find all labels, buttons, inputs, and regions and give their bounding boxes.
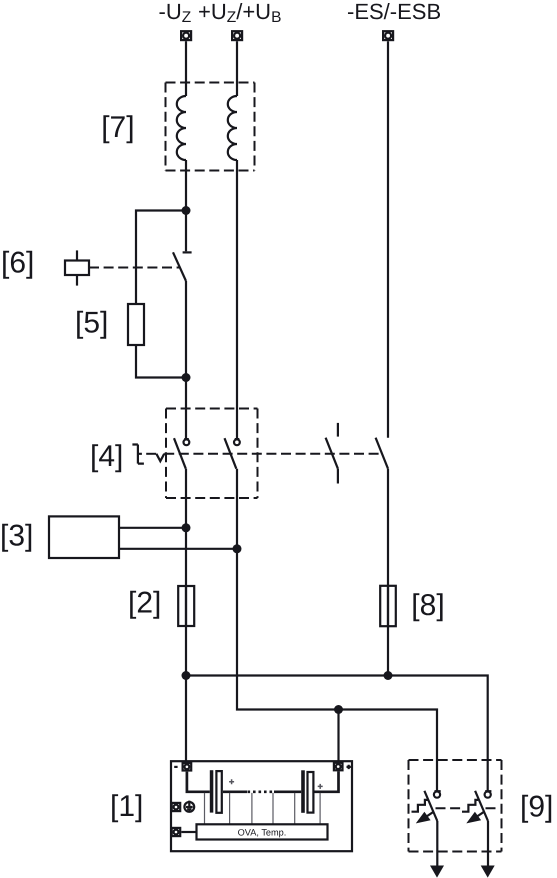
monitor board OVA Temp [197, 824, 328, 839]
enclosure [7] dashed box [166, 83, 255, 171]
breaker Q1 contact circle [434, 791, 441, 798]
breaker Q1 blade [424, 791, 437, 821]
relay coil [6] [65, 250, 89, 285]
wire bus1 to breaker right [186, 676, 488, 792]
label [9] [520, 790, 553, 823]
svg-text:[1]: [1] [110, 790, 143, 823]
wire node through fuse [2] [185, 528, 187, 676]
node -ES joins bus1 [384, 671, 393, 680]
arrow Q2 output [481, 866, 495, 878]
switch S6 blade [173, 252, 186, 281]
svg-text:[8]: [8] [411, 589, 444, 622]
switch K4 blade on -ES line [376, 438, 388, 469]
wire [3] to +UZ node [119, 548, 237, 550]
label [7] [101, 111, 134, 144]
fuse [2] [178, 586, 194, 626]
breaker Q2 blade [475, 791, 488, 821]
label [1] [110, 790, 143, 823]
actuator symbol [4] [132, 445, 144, 464]
terminal label -UZ [159, 0, 192, 26]
svg-text:[3]: [3] [0, 519, 33, 552]
wire node down to [1] + terminal [337, 710, 339, 763]
switch K1 blade [174, 438, 186, 469]
wire K2 to node [236, 469, 238, 549]
terminal -ES/-ESB [383, 31, 393, 40]
node on -UZ line (bottom of R branch) [182, 373, 191, 382]
switch K1 in [4] contact circle [184, 439, 190, 445]
label [5] [75, 306, 108, 339]
wire L1 to node [185, 160, 187, 211]
protective earth symbol [184, 801, 194, 812]
svg-text:OVA, Temp.: OVA, Temp. [238, 828, 287, 838]
dotted continuation (more capacitors) [248, 790, 274, 793]
node -UZ line at [3] [182, 523, 191, 532]
wire C2 to [1] plus terminal [314, 771, 338, 791]
terminal [1] minus [174, 763, 191, 771]
inductor L1 [177, 96, 186, 160]
wire -UZ down to inductor [185, 41, 187, 96]
terminal [1] plus [334, 763, 351, 771]
wire Q1 output [436, 821, 438, 867]
terminal +UZ/+UB [232, 31, 242, 40]
svg-text:-ES/-ESB: -ES/-ESB [347, 0, 441, 24]
breaker Q1 release arrow [416, 812, 434, 824]
label [6] [1, 246, 34, 279]
wire node to resistor branch [136, 211, 186, 305]
wire [1] minus terminal to capacitor row [187, 772, 210, 792]
svg-text:+UZ/+UB: +UZ/+UB [198, 0, 281, 26]
wire -UZ node down to [1] - terminal [185, 676, 187, 763]
component [1] capacitor unit box [171, 761, 352, 851]
svg-text:[9]: [9] [520, 790, 553, 823]
component [3] box [49, 516, 119, 558]
wire node to contact K1 [185, 378, 187, 440]
wire K1 to node [185, 469, 187, 528]
wire +UZ down to inductor [236, 41, 238, 96]
wire C1 to dotted [223, 790, 247, 793]
wire -ES/-ESB down to switch K4 [387, 41, 389, 438]
enclosure [4] dashed box [166, 409, 258, 499]
breaker Q1 trip mechanism [412, 800, 428, 812]
switch S6 fixed contact tick [183, 251, 192, 253]
svg-text:[5]: [5] [75, 306, 108, 339]
inductor L2 [228, 96, 237, 160]
node on -UZ line (top of R branch) [182, 206, 191, 215]
label [8] [411, 589, 444, 622]
terminal -UZ [181, 31, 191, 40]
enclosure [9] dashed box [409, 760, 502, 852]
wire [3] to -UZ node [119, 527, 186, 529]
label [2] [128, 586, 161, 619]
mechanical link [6] to switch [89, 267, 180, 269]
svg-text:[4]: [4] [90, 440, 123, 473]
breaker Q2 contact circle [485, 791, 492, 798]
breaker Q2 release arrow [466, 812, 484, 824]
terminal label -ES/-ESB [347, 0, 441, 24]
terminal [1] left earth [172, 803, 181, 811]
wire switch to node [185, 281, 187, 378]
switch K2 blade [225, 438, 237, 469]
capacitor C1 [210, 770, 222, 813]
wire bus2 +UZ to breaker left [237, 549, 437, 792]
switch K2 in [4] contact circle [234, 439, 240, 445]
label [4] [90, 440, 123, 473]
polarity + of C2 [318, 784, 323, 789]
wire L2 to contact K2 [236, 160, 238, 439]
wire Q2 output [487, 821, 489, 867]
svg-text:[7]: [7] [101, 111, 134, 144]
terminal [1] left sense [172, 828, 181, 836]
wire resistor to lower node [136, 345, 186, 378]
switch K3 aux (floating stubs) [326, 423, 338, 484]
wire dotted to C2 [274, 790, 301, 793]
wire K4 down through fuse to node [387, 469, 389, 676]
label [3] [0, 519, 33, 552]
svg-text:[2]: [2] [128, 586, 161, 619]
node -UZ bus junction [182, 671, 191, 680]
wire node to switch contact [185, 211, 187, 252]
svg-text:-UZ: -UZ [159, 0, 192, 26]
fuse [8] [380, 586, 396, 626]
mechanical link Q1-Q2 [436, 807, 501, 809]
terminal label +UZ/+UB [198, 0, 281, 26]
wire sense terminal to board [181, 831, 196, 833]
breaker Q2 trip mechanism [462, 800, 478, 812]
resistor [5] [128, 304, 144, 345]
mechanical link dashed with manual notch [146, 454, 381, 461]
capacitor C2 [301, 770, 313, 813]
node +UZ line at [3] [233, 544, 242, 553]
polarity + of C1 [229, 779, 234, 784]
arrow Q1 output [430, 866, 444, 878]
node bus2 to capacitor unit [334, 705, 343, 714]
sense lines to monitor board [205, 793, 321, 824]
svg-text:[6]: [6] [1, 246, 34, 279]
